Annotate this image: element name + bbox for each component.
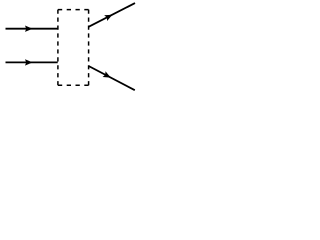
dashed box bottom edge — [58, 84, 89, 86]
incoming wire 1 (top left) — [6, 28, 58, 30]
dashed box top edge — [58, 9, 89, 11]
dashed box left edge — [57, 10, 59, 86]
arrowhead on incoming wire 2 — [25, 59, 33, 65]
arrowhead on incoming wire 1 — [25, 26, 33, 32]
arrowhead on outgoing wire 1 — [104, 12, 114, 21]
arrowhead on outgoing wire 2 — [103, 71, 113, 80]
outgoing wire 1 (top right diagonal) — [89, 3, 135, 27]
incoming wire 2 (bottom left) — [6, 61, 58, 63]
outgoing wire 2 (bottom right diagonal) — [89, 66, 135, 90]
dashed box right edge — [88, 10, 90, 86]
